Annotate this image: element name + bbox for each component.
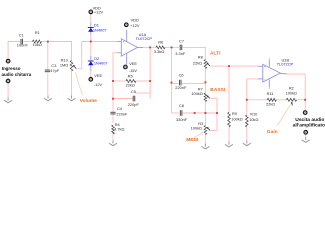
wire node C mid rail [171,47,173,113]
svg-text:100kΩ: 100kΩ [231,117,242,122]
svg-text:3.3kΩ: 3.3kΩ [154,49,164,54]
resistor R11 [267,98,276,101]
junction (150.1,81) [149,80,151,82]
wire R10 top [246,100,248,115]
wire R4 to ground [112,133,114,140]
svg-text:1N4007: 1N4007 [94,61,108,66]
wire C8 row right [183,112,217,114]
svg-text:330nF: 330nF [176,117,188,122]
junction (246.8,99.8) [246,99,248,101]
power port VEE clamp [89,78,93,82]
ground output [302,137,310,142]
svg-text:R1: R1 [35,30,40,35]
svg-text:all'amplificatore: all'amplificatore [293,123,325,129]
svg-text:1MΩ: 1MΩ [60,62,68,67]
wire C1 to R1 [23,41,32,43]
resistor R5 [126,80,136,83]
capacitor C3 [45,70,50,72]
wire R10 to ground [246,127,248,140]
ground R9 [225,142,233,147]
power port VDD U1A [125,23,129,27]
capacitor C4 [110,112,115,114]
wire C6 row right [182,82,205,84]
svg-text:+12V: +12V [94,10,104,15]
svg-text:22kΩ: 22kΩ [193,60,202,65]
wire D1 bottom lead [90,32,92,35]
svg-text:R5: R5 [128,73,133,78]
junction (217,113) [216,112,218,114]
ground input [4,97,12,102]
wire D2 to VEE port [90,71,92,77]
svg-text:VEE: VEE [94,73,102,78]
wire R5 row right [136,80,150,82]
wire U1B out rail [287,74,305,110]
svg-text:R6: R6 [158,39,163,44]
wire C6 row left [172,82,178,84]
svg-text:-12V: -12V [94,82,103,87]
resistor R6 [156,46,165,49]
junction (113,98.7) [112,98,114,100]
capacitor C1 [21,39,23,45]
svg-text:TL072CP: TL072CP [277,62,294,67]
ground R10 [243,140,251,145]
wire U1A out to R6 [143,46,156,48]
U1B power stub ticks [268,58,270,60]
label pointer MEDI [194,132,205,138]
svg-text:TL072CP: TL072CP [136,36,153,41]
input port 2 [6,79,10,83]
wire input riser [8,42,20,59]
svg-text:Ingresso: Ingresso [2,66,21,71]
wire BASSI wiper [210,98,217,113]
svg-text:1N4007: 1N4007 [93,27,107,32]
wire minus node to R11 [247,99,267,101]
wire R2 to out rail [297,99,306,101]
wire input ground stub [7,83,9,97]
op-amp U1B [258,60,287,87]
wire R6 to node C [165,46,179,48]
wire C7 to ALTI corner [183,47,206,59]
svg-text:C4: C4 [117,106,123,111]
capacitor C5 [133,96,135,102]
wire R9 riser [228,66,230,112]
resistor R9 [228,112,231,127]
svg-text:4.7kΩ: 4.7kΩ [114,126,124,131]
svg-text:R8: R8 [198,54,203,59]
wire R13 bottom to ground [71,71,73,95]
power port VDD clamp [89,10,93,14]
wire R9 to ground [228,127,230,142]
wire D2 top lead [90,56,92,61]
ground R13 [68,95,76,100]
wire R13 wiper riser [76,42,91,69]
label pointer Gain [278,105,291,126]
wire output ground stub [305,134,307,137]
potentiometer R3 MEDI [204,126,207,135]
wire node B to op-amp [91,41,117,43]
svg-text:+12V: +12V [130,23,140,28]
wire C3 to ground [47,73,49,95]
junction (305.2,99.8) [304,99,306,101]
output port 2 [304,131,308,135]
wire C4 to R4 [112,113,114,123]
capacitor C7 [180,45,182,51]
wire ALTI bottom [204,69,206,94]
svg-text:MEDI: MEDI [186,137,199,143]
capacitor C8 [180,110,182,116]
junction (205.4,113) [204,112,206,114]
resistor R10 [246,115,249,127]
potentiometer R13 [70,61,73,72]
svg-text:R10: R10 [250,112,258,117]
svg-text:C7: C7 [179,38,184,43]
wire MEDI bottom to ground [204,135,206,144]
junction (171.5,82.6) [171,82,173,84]
svg-text:100kΩ: 100kΩ [191,126,202,131]
svg-text:22kΩ: 22kΩ [266,102,275,107]
wire feedback right rail [149,47,151,98]
wire BASSI bottom [204,102,206,126]
label pointer Volume [75,72,82,95]
svg-text:47pF: 47pF [50,68,59,73]
junction (90.8,41.5) [90,41,92,43]
wire U1B minus loop [247,79,258,100]
svg-text:Uscita audio: Uscita audio [295,117,324,123]
svg-text:3.3nF: 3.3nF [175,51,186,56]
wire node A to R13 corner [48,42,72,61]
wire C5 row right [135,92,149,94]
svg-text:10kΩ: 10kΩ [33,42,42,47]
wire R5 row left [113,80,126,82]
svg-text:R11: R11 [267,91,274,96]
svg-text:100kΩ: 100kΩ [191,91,202,96]
junction (205.4,82.3) [204,81,206,83]
ground MEDI [201,144,209,149]
wire D2 bottom lead [90,65,92,71]
svg-text:220pF: 220pF [128,102,140,107]
power port VEE U1A [124,65,128,69]
wire D1 top lead [90,22,92,27]
wire minus input rail [113,53,117,112]
potentiometer R7 BASSI [204,93,207,101]
resistor R1 [33,40,42,43]
svg-text:audio chitarra: audio chitarra [2,72,32,77]
input port 1 [6,59,10,63]
wire R11 to R2 [276,99,286,101]
wire R1 to node A [42,41,48,43]
wire node A down to C3 [47,42,49,71]
svg-text:Volume: Volume [80,98,98,104]
wire D1 to node B [90,35,92,42]
svg-text:R9: R9 [232,111,237,116]
svg-text:C1: C1 [19,33,24,38]
wire C5 row left [113,98,133,100]
wire VDD to D1 [90,14,92,23]
ground U1A feedback [109,140,117,145]
ground C3 [44,95,52,100]
svg-text:220nF: 220nF [175,85,187,90]
wire node B to D2 [90,42,92,56]
junction (194.6,113) [194,112,196,114]
svg-text:100nF: 100nF [17,43,29,48]
diode D2 [88,60,94,62]
wire ALTI wiper bus [210,65,258,67]
wire MEDI wiper [210,113,217,130]
junction (171.5,47.4) [171,46,173,48]
diode D1 [88,27,94,29]
junction (229,66.1) [228,65,230,67]
svg-text:ALTI: ALTI [210,50,221,56]
svg-text:C5: C5 [131,89,136,94]
wire C8 row left [172,112,180,114]
svg-text:C8: C8 [179,103,184,108]
op-amp U1A [117,30,143,65]
capacitor C6 [179,80,181,86]
svg-text:C6: C6 [179,72,184,77]
svg-text:100kΩ: 100kΩ [286,91,297,96]
resistor R4 [112,125,115,134]
svg-text:22kΩ: 22kΩ [126,83,135,88]
svg-text:220nF: 220nF [116,112,128,117]
svg-text:10kΩ: 10kΩ [249,117,258,122]
junction (47.8,41.6) [47,41,49,43]
svg-text:VEE: VEE [129,61,137,66]
potentiometer R8 ALTI [204,60,207,69]
svg-text:BASSI: BASSI [210,87,226,93]
potentiometer R2 [286,98,296,101]
junction (150.1,47.4) [149,46,151,48]
output port 1 [303,111,307,115]
svg-text:Gain: Gain [267,129,278,135]
junction (113,81) [112,80,114,82]
